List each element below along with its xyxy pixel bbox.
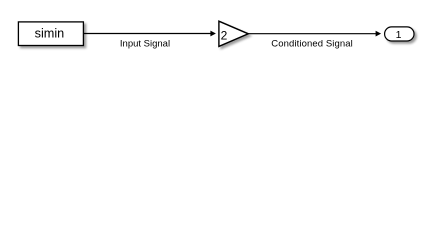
svg-text:simin: simin xyxy=(35,27,65,41)
svg-text:Conditioned Signal: Conditioned Signal xyxy=(271,38,353,49)
svg-text:Input Signal: Input Signal xyxy=(120,38,170,49)
svg-text:2: 2 xyxy=(221,29,228,43)
svg-text:1: 1 xyxy=(396,29,402,41)
